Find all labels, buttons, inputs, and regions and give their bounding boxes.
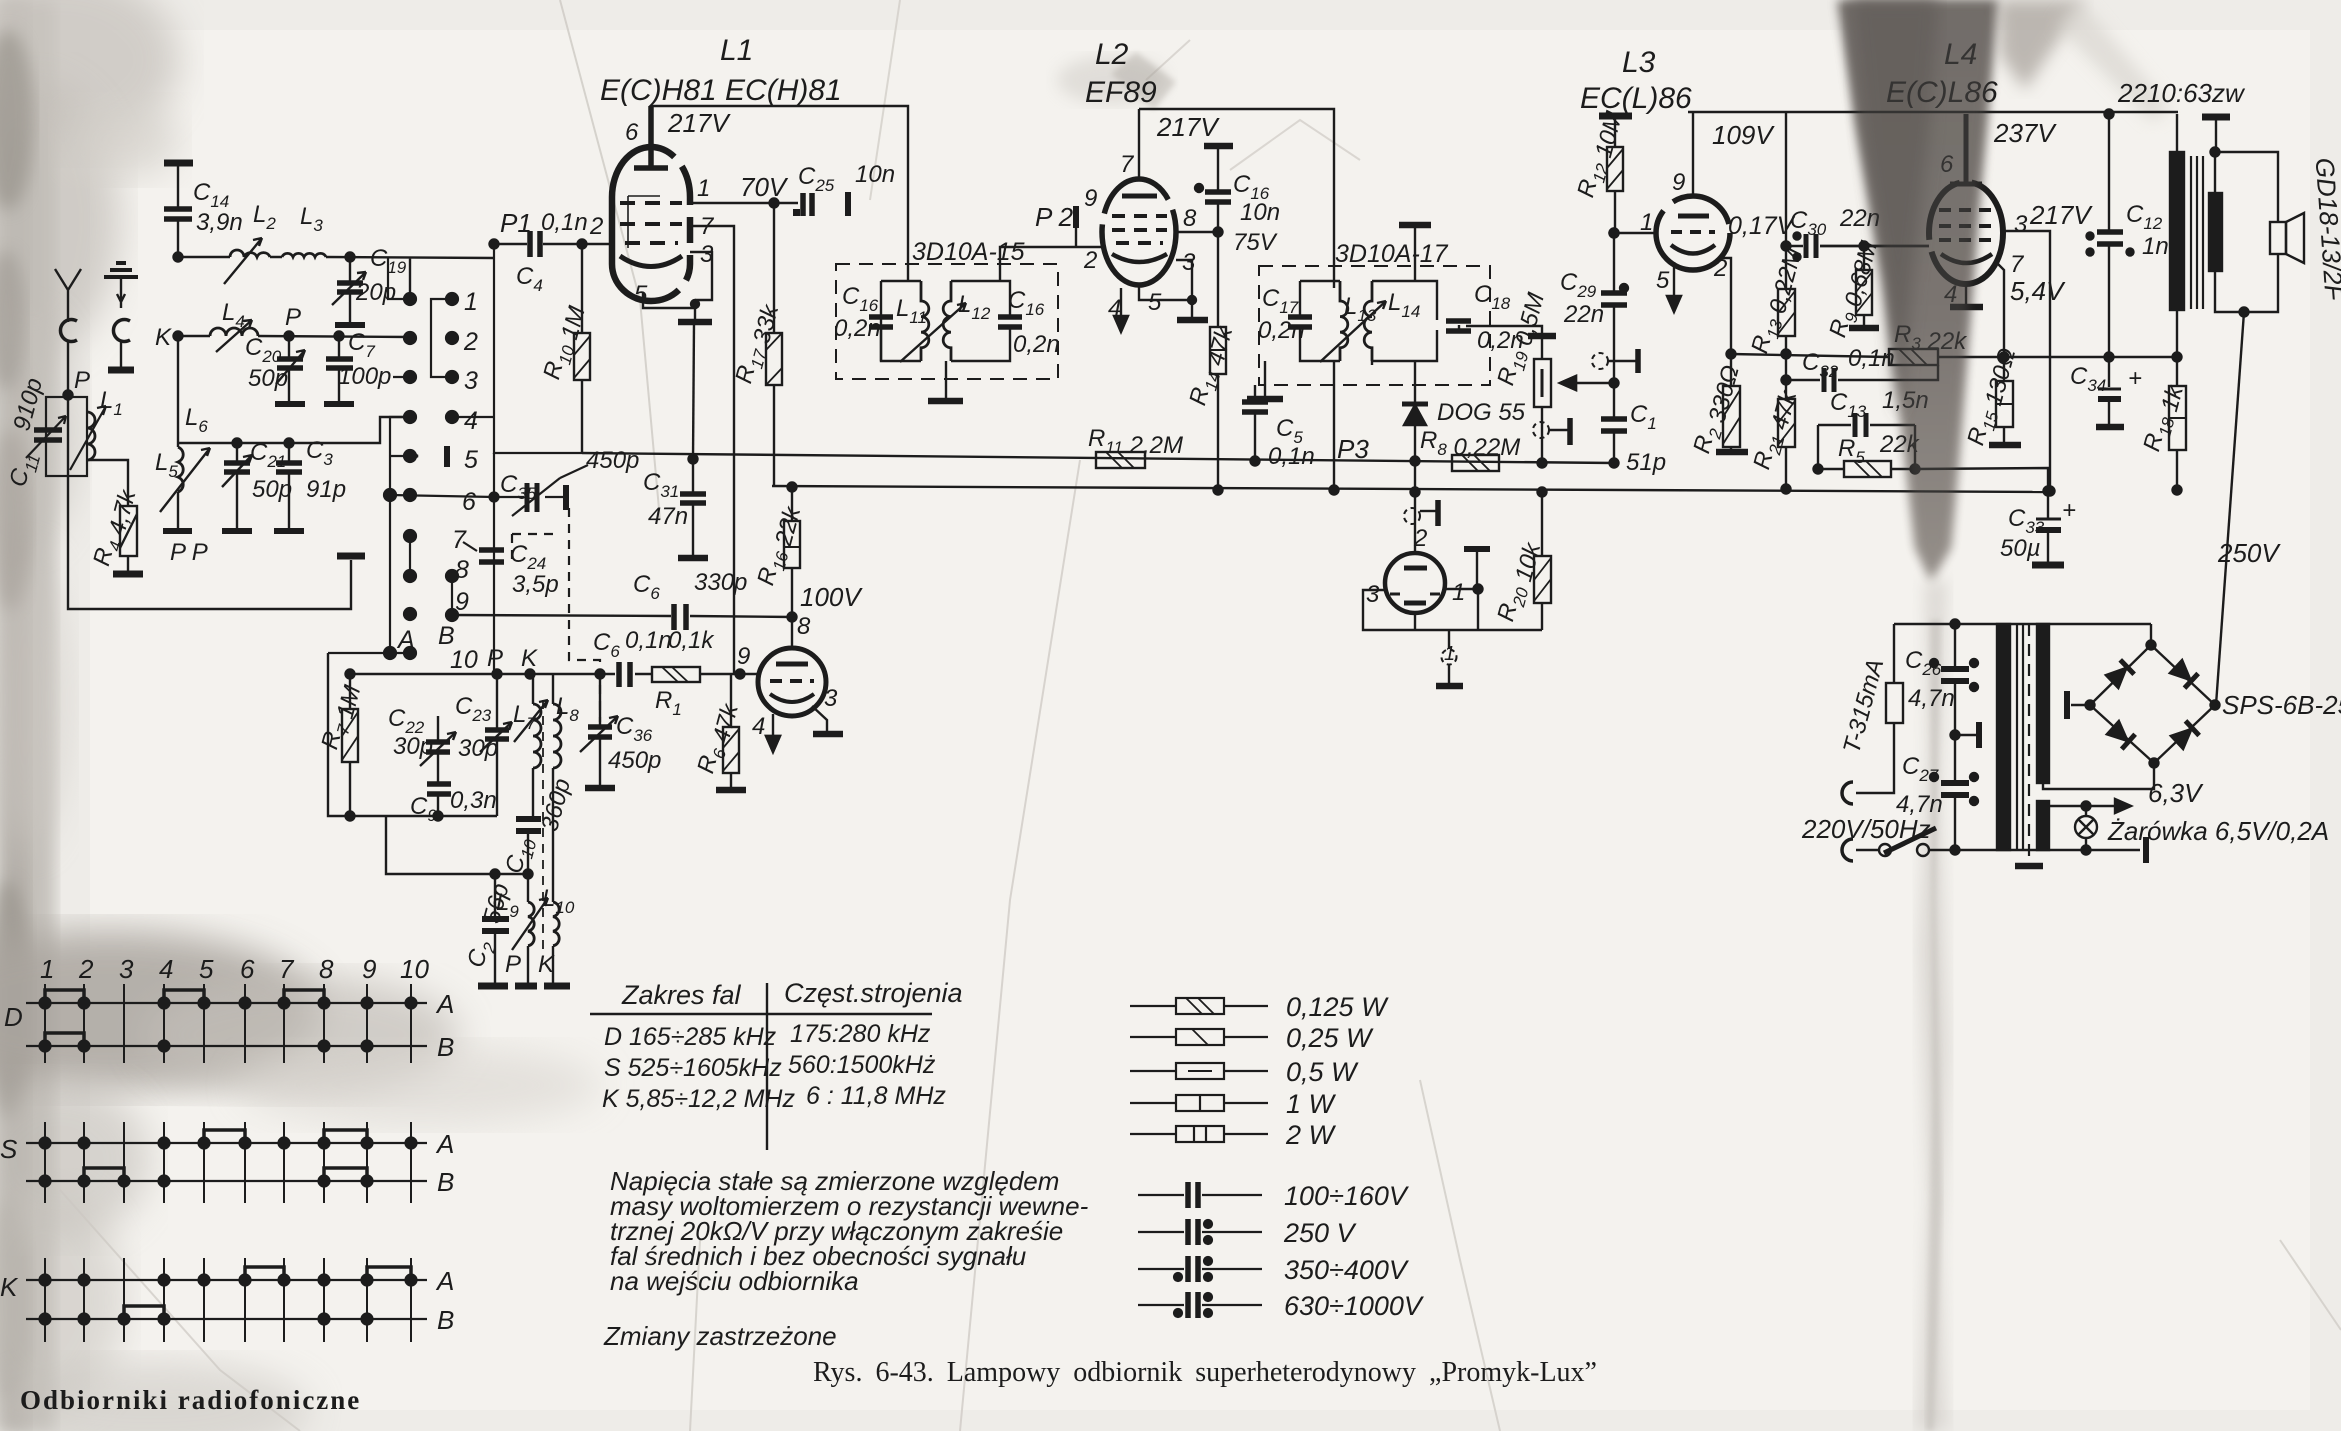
capacitor C16 left [869,317,893,327]
wire main AVC line1 [494,453,1614,463]
wire row1 to C19 node [388,258,410,299]
resistor R7 [349,674,351,816]
svg-text:1: 1 [1640,209,1653,236]
wire to R17 [773,203,775,333]
svg-text:K: K [521,645,538,672]
svg-text:0,25 W: 0,25 W [1286,1023,1374,1053]
svg-text:SPS-6B-250: SPS-6B-250 [2222,690,2341,720]
svg-text:0,5 W: 0,5 W [1286,1057,1359,1087]
svg-text:5: 5 [464,446,478,474]
svg-text:L1: L1 [720,34,753,67]
ground [113,571,143,578]
svg-text:3: 3 [700,241,714,268]
resistor R11 [1096,452,1145,468]
antenna input 2 (earth stack) [104,263,138,277]
svg-text:1: 1 [1452,579,1465,606]
wire grid line C4 [494,243,612,245]
svg-text:3: 3 [1366,581,1380,608]
svg-text:100÷160V: 100÷160V [1284,1181,1410,1211]
svg-text:K: K [0,1272,19,1302]
svg-text:630÷1000V: 630÷1000V [1284,1291,1425,1321]
bottom line [1997,849,2140,851]
svg-text:220V/50Hz: 220V/50Hz [1801,814,1931,844]
resistor R3 [1889,349,1938,365]
mains plug top [1842,782,1853,804]
svg-text:na wejściu odbiornika: na wejściu odbiornika [610,1266,859,1296]
svg-text:450p: 450p [586,447,639,474]
capacitor C32 [1782,376,1791,385]
diode 4 [2170,721,2199,750]
svg-text:P: P [505,951,521,978]
svg-text:0,1n: 0,1n [1848,345,1895,372]
wire grid [1614,232,1657,234]
capacitor C18 [1446,321,1471,331]
coils L9 L10 [528,768,553,902]
svg-text:217V: 217V [1156,112,1220,142]
svg-text:P: P [487,645,503,672]
ground under filter [1264,361,1266,397]
svg-text:A: A [435,1129,454,1159]
svg-text:4: 4 [1108,295,1121,322]
svg-text:0,3n: 0,3n [450,787,497,814]
tank rectangles [869,281,921,361]
svg-text:10n: 10n [855,161,895,188]
svg-text:0,1k: 0,1k [668,627,715,654]
svg-text:9: 9 [455,588,469,616]
svg-text:S: S [0,1134,18,1164]
coil L5 [178,447,183,492]
svg-text:1: 1 [40,954,54,984]
node K / wire L4 line [174,332,183,341]
svg-text:91p: 91p [306,476,346,503]
svg-text:6: 6 [240,954,255,984]
wire L6 line [178,417,410,443]
HV secondary to bridge [2043,763,2154,789]
note text block [603,1166,1089,1351]
coil L12 [943,281,951,361]
pin5 arrow [1673,262,1675,306]
capacitor C2 [494,874,496,983]
capacitor C36 [599,674,601,786]
capacitor C33 electrolytic [2044,487,2053,496]
capacitor C17 [1288,317,1312,327]
svg-text:51p: 51p [1626,449,1666,476]
resistor R1 [652,667,700,682]
svg-text:560:1500kHż: 560:1500kHż [788,1051,936,1079]
coil L1 [87,412,95,460]
svg-text:B: B [437,1032,454,1062]
svg-text:P: P [285,304,301,331]
wire filter output to EF89 grid [1000,247,1104,281]
svg-text:250V: 250V [2217,538,2281,568]
pin7 wire to cathode network [1997,263,2004,357]
contact 5 bar [444,446,450,467]
svg-text:0,2n: 0,2n [1258,317,1305,344]
capacitor C21 [236,443,238,529]
contact 5 arrow [390,451,418,461]
resistor R15 [2000,353,2009,362]
svg-text:50p: 50p [248,365,288,392]
capacitor C23 [496,674,498,816]
svg-text:1: 1 [464,288,478,316]
svg-text:5,4V: 5,4V [2010,276,2066,306]
svg-text:217V: 217V [667,108,731,138]
wire 250V feed [2216,312,2244,705]
svg-text:1n: 1n [2142,233,2169,260]
svg-text:30p: 30p [393,733,433,760]
wire left loop [328,653,497,816]
wire cathode junction [1731,354,1889,357]
wire [386,816,528,874]
pin4 arrow to ground [766,714,780,752]
capacitor C26 [1951,620,1960,629]
svg-text:8: 8 [455,556,469,584]
svg-text:6 : 11,8 MHz: 6 : 11,8 MHz [806,1082,946,1110]
wire 237V bus [1688,111,2178,113]
pickup jack [1592,353,1608,369]
svg-text:5: 5 [1148,289,1162,316]
left edge grey band [0,0,55,1431]
svg-text:0,1n: 0,1n [1268,443,1315,470]
wire detector to volume pot [1466,326,1542,334]
ground [678,319,712,326]
capacitor C16 10n with ground above [1204,143,1233,150]
band matrix S [26,1143,427,1181]
resistor R4 [120,506,137,556]
svg-text:5: 5 [634,281,648,308]
capacitor C24 [479,550,504,562]
resistor R14 [1217,232,1219,490]
output transformer [2176,114,2178,357]
wire pin3/pin5 to ground [643,252,712,320]
svg-text:50p: 50p [252,476,292,503]
coil L13 [1340,281,1348,361]
wire row6 to C35 [390,417,494,497]
svg-text:A: A [435,989,454,1019]
svg-text:A: A [396,626,415,654]
capacitor C6 330p [674,604,686,630]
svg-text:10n: 10n [1240,199,1280,226]
capacitor C1 [1613,383,1615,463]
svg-text:Częst.strojenia: Częst.strojenia [784,978,963,1008]
resistor R18 [2176,357,2178,490]
wire feedback to line2 [1915,468,2048,491]
svg-text:9: 9 [1672,169,1685,196]
band switch contact columns [404,293,416,305]
terminal bar PP [163,528,192,534]
svg-text:237V: 237V [1993,118,2057,148]
svg-text:3: 3 [824,685,838,712]
resistor R10 [581,244,583,453]
capacitor C10 [528,768,533,874]
svg-text:22n: 22n [1563,301,1604,328]
svg-text:47n: 47n [648,503,688,530]
resistor R9 [1863,246,1865,326]
svg-text:P P: P P [170,539,208,566]
svg-text:Żarówka 6,5V/0,2A: Żarówka 6,5V/0,2A [2107,816,2329,846]
wire line1-line2 vertical at detector [1414,461,1416,492]
resistor R8 on line1 [1452,455,1499,471]
pin4 arrow [1120,288,1122,326]
svg-text:10: 10 [450,646,478,674]
svg-text:217V: 217V [2029,200,2093,230]
svg-text:3: 3 [119,954,134,984]
wire 217V bus L1 [651,106,908,281]
diode 1 [2105,660,2134,689]
svg-text:K: K [155,324,172,351]
svg-text:L2: L2 [1095,38,1129,71]
dark smudge top right [1837,0,1998,582]
svg-text:P3: P3 [1337,434,1369,464]
capacitor C16 right [998,317,1022,327]
capacitor C27 [1954,735,1956,850]
capacitor C35 trimmer [494,496,563,498]
resistor R12 [1614,116,1616,233]
svg-text:Odbiorniki radiofoniczne: Odbiorniki radiofoniczne [20,1385,361,1415]
svg-text:L3: L3 [1622,46,1656,79]
capacitor C13 and resistor R5 loop [1818,425,1915,469]
svg-text:75V: 75V [1233,229,1278,256]
svg-text:6,3V: 6,3V [2148,778,2204,808]
svg-text:10: 10 [400,954,429,984]
resistor R17 [766,333,782,385]
svg-text:7: 7 [1120,151,1135,178]
svg-text:8: 8 [319,954,334,984]
pin3 wire to line2 [2003,231,2050,491]
svg-text:70V: 70V [740,172,789,202]
svg-text:P: P [74,367,90,394]
indicator tube feed [1414,492,1416,553]
capacitor C20 [288,336,290,402]
svg-text:B: B [437,1167,454,1197]
svg-text:0,1n: 0,1n [625,627,672,654]
svg-text:2: 2 [463,328,478,356]
capacitor C6 0,1n [619,662,630,687]
smudge overlay [1845,0,1995,578]
capacitor C11 [46,397,87,476]
svg-text:2: 2 [1713,255,1727,282]
svg-text:2 W: 2 W [1285,1120,1337,1150]
svg-text:3: 3 [1182,249,1196,276]
svg-text:109V: 109V [1712,120,1775,150]
creases (faint) [560,0,660,520]
wire [68,341,351,609]
svg-text:450p: 450p [608,747,661,774]
tube L1 (triode-hexode E(C)H81) [612,147,651,301]
bottom-left grey blotch around D matrix [0,930,320,1090]
svg-text:30p: 30p [458,735,498,762]
coil L2 [230,250,270,257]
svg-text:7: 7 [452,526,467,554]
capacitor C7 [338,336,340,402]
svg-text:0,17V: 0,17V [1728,212,1796,240]
svg-text:1 W: 1 W [1286,1089,1337,1119]
indicator wiring [1363,590,1542,630]
svg-text:7: 7 [2010,251,2025,278]
svg-text:Rys. 6-43. Lampowy odbiornik s: Rys. 6-43. Lampowy odbiornik superhetero… [813,1357,1597,1388]
svg-text:3D10A-17: 3D10A-17 [1335,240,1449,268]
svg-text:3,9n: 3,9n [196,209,243,236]
terminal bar [337,553,365,560]
diode 2 [2169,659,2198,688]
svg-text:+: + [2128,365,2142,392]
wire row8-9 right [451,576,453,615]
capacitor C22 [437,716,439,783]
capacitor C4 [530,231,540,257]
bridge left terminal [2071,704,2090,706]
svg-text:3: 3 [2014,211,2028,238]
svg-text:DOG 55: DOG 55 [1437,399,1526,426]
dial lamp [2085,806,2087,816]
svg-text:100V: 100V [800,582,863,612]
mechanical gang (dashed) [569,508,600,722]
svg-text:2: 2 [1083,247,1097,274]
resistor R20 [1538,488,1547,497]
speaker GD18-13/2F [2270,222,2286,254]
band matrix D [26,1003,427,1046]
ground under filter [945,361,947,399]
wire cathode line [2004,356,2177,358]
svg-text:1: 1 [697,175,710,202]
svg-text:3: 3 [464,367,478,395]
pale streak continuing downward [1916,580,1950,1431]
svg-text:B: B [438,622,455,650]
resistor R6 [730,674,732,788]
resistor R13 [1785,246,1787,354]
diode 3 [2106,720,2135,749]
svg-text:20p: 20p [355,279,396,306]
svg-text:8: 8 [797,613,811,640]
capacitor C9 [427,784,451,794]
svg-text:7: 7 [700,213,715,240]
PSU top line [1894,623,2151,625]
svg-text:250 V: 250 V [1283,1218,1358,1248]
svg-text:0,2n: 0,2n [1013,331,1060,358]
ground above C14 [164,160,193,167]
svg-text:E(C)H81 EC(H)81: E(C)H81 EC(H)81 [600,74,842,107]
pickup jack 2 [1533,422,1549,438]
capacitor C31 [689,455,698,464]
indicator tube (magic eye) [1385,553,1445,613]
coil L11 [921,281,929,361]
svg-text:EF89: EF89 [1085,76,1157,109]
wire U link rows 1-3 [431,299,452,377]
svg-text:EC(L)86: EC(L)86 [1580,82,1692,115]
svg-text:5: 5 [199,954,214,984]
svg-text:175:280 kHz: 175:280 kHz [790,1020,931,1048]
svg-text:3,5p: 3,5p [512,571,559,598]
wire 217V bus EF89 [1139,109,1334,288]
wire cathode node to AVC line [693,322,694,459]
ground bars [478,983,508,990]
capacitor C19 [346,253,355,262]
svg-text:8: 8 [1183,205,1197,232]
capacitor C29 [1610,229,1619,238]
svg-text:A: A [435,1266,454,1296]
legend resistor wattage [1130,998,1268,1142]
capacitor C14 [164,166,192,258]
svg-text:100p: 100p [338,363,391,390]
tube L4 output pentode [1929,182,2003,284]
band matrix K [26,1280,427,1319]
wire pin1 70V [690,202,798,204]
diode DOG 55 [1372,361,1415,404]
wire pin8 [1176,231,1218,233]
svg-text:2: 2 [589,213,603,240]
potentiometer R19 [1528,333,1556,340]
svg-text:9: 9 [737,643,750,670]
tube L2 EF89 [1102,179,1176,285]
pin2 wire to R2 [1718,258,1731,386]
test point P2 [1073,206,1079,228]
mains plug bottom [1842,839,1853,861]
svg-text:330p: 330p [694,569,747,596]
heater winding 6.3V [2049,805,2125,807]
capacitor C5 [1254,385,1256,461]
pin5 pin3 ground [1139,260,1192,318]
svg-text:4: 4 [752,713,765,740]
wire row3 stub [393,376,410,378]
tube L3 triode [1656,196,1730,270]
resistor R21 [1785,354,1787,489]
svg-text:Zakres fal: Zakres fal [621,980,742,1010]
bridge rectifier SPS-6B-250 [2090,645,2215,763]
svg-text:0,125 W: 0,125 W [1286,992,1389,1022]
svg-text:S 525÷1605kHz: S 525÷1605kHz [604,1054,782,1082]
svg-text:9: 9 [1084,185,1097,212]
svg-text:6: 6 [625,119,639,146]
node P [64,391,73,400]
IF transformer 3D10A-17 dashed box [1259,266,1490,385]
antenna input 1 [55,269,81,322]
capacitor C12 [2108,114,2110,357]
svg-text:3D10A-15: 3D10A-15 [912,238,1025,266]
resistor R16 [788,483,797,492]
svg-text:1: 1 [1444,643,1455,665]
IF transformer 3D10A-15 dashed box [836,264,1058,379]
wire to L5 [177,336,179,447]
svg-text:350÷400V: 350÷400V [1284,1255,1410,1285]
svg-text:2: 2 [78,954,94,984]
svg-text:5: 5 [1656,267,1670,294]
legend capacitor voltage classes [1138,1182,1262,1318]
svg-text:7: 7 [279,954,295,984]
coil L3 [282,253,326,257]
wire to speaker [2215,152,2278,222]
svg-text:Zmiany zastrzeżone: Zmiany zastrzeżone [603,1321,837,1351]
grid wire in [1820,245,1929,247]
svg-text:P 2: P 2 [1035,202,1074,232]
svg-text:50µ: 50µ [2000,535,2041,562]
coil L14 [1364,281,1372,361]
svg-text:6: 6 [462,488,476,516]
wire P1 vertical [493,244,495,674]
wire to R10 bottom [494,452,582,454]
wire pin7 down to oscillator grid [690,226,734,674]
svg-text:K: K [538,951,555,978]
wire rows 7-8 [409,536,411,576]
wire L13 bottom to line2 [1333,361,1335,490]
wire [87,460,128,506]
svg-text:P1: P1 [500,208,532,238]
svg-text:0,2n: 0,2n [834,315,881,342]
terminal bar above R12 [1599,113,1632,120]
wire 100V line with C6 330p [452,615,792,617]
svg-text:2210:63zw: 2210:63zw [2117,78,2246,108]
pin4 ground [1965,284,1967,305]
svg-text:B: B [437,1305,454,1335]
svg-text:9: 9 [362,954,376,984]
